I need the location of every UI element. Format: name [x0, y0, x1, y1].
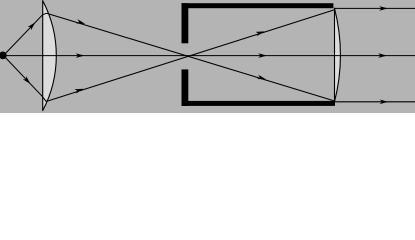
ray upper exit: lens L2 to right edge: [335, 7, 415, 9]
ray lower: source to lens L1: [4, 56, 47, 102]
box top wall: [182, 3, 334, 8]
lens L1 (condenser, plano-convex) body: [43, 1, 57, 111]
box left wall lower segment (below aperture): [182, 69, 189, 106]
ray upper: source to lens L1: [4, 13, 47, 55]
box left wall upper segment (above aperture): [182, 3, 189, 43]
light source S: [0, 52, 7, 60]
ray axial: source to right edge: [4, 55, 415, 57]
arrow on ascending ray inside box: [255, 29, 265, 36]
arrow on axial ray inside box: [258, 53, 267, 58]
arrow on upper exit ray: [379, 6, 388, 11]
arrow on descending ray inside box: [257, 75, 267, 82]
arrow on lower converging ray: [74, 87, 84, 94]
box bottom wall: [182, 101, 336, 106]
arrow on axial exit ray: [378, 53, 387, 58]
ray lower refracted: lens L1 through pinhole to lens L2 top: [46, 10, 334, 102]
arrow on lower source ray: [23, 76, 32, 86]
arrow on upper source ray: [28, 21, 37, 31]
ray upper refracted: lens L1 through pinhole to lens L2 bottom: [47, 13, 335, 101]
ray lower exit: lens L2 to right edge: [335, 101, 415, 103]
arrow on lower exit ray: [380, 100, 389, 105]
arrow on axial ray before pinhole: [76, 53, 85, 58]
lens L2 (collimating, plano-convex) body: [335, 8, 341, 102]
arrow on upper converging ray: [76, 19, 86, 26]
